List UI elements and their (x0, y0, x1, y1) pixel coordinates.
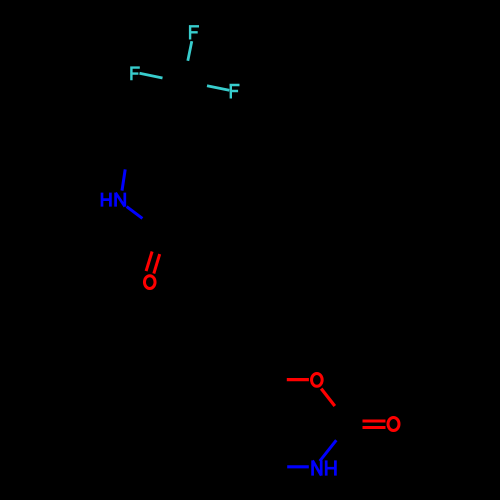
bond aryl-O2 horizontal (red half) (287, 378, 309, 381)
atom label HN (ring amide nitrogen) (102, 193, 125, 207)
bond N-C(=O) down (blue half) (127, 207, 143, 219)
double bond C=O3 (red halves) (363, 421, 386, 428)
atom label F1 (top fluorine) (189, 25, 199, 39)
atom label O1 (lactam oxygen) (144, 276, 155, 289)
atom label O3 (carbamate carbonyl oxygen) (388, 418, 399, 431)
bond O2-C carbamate (red half) (321, 389, 335, 406)
bond N-C carbamate diagonal (blue half) (320, 440, 337, 461)
double bond C=O1 (red halves) (146, 252, 160, 274)
bond N-C ring up (blue half) (122, 169, 125, 190)
atom label F2 (left fluorine) (130, 66, 140, 80)
atom label O2 (ether oxygen) (312, 374, 323, 387)
bond C-F3 (cyan half) (207, 86, 229, 90)
atom label NH (carbamate nitrogen) (313, 460, 336, 475)
bond N-CH3 horizontal (blue half) (287, 465, 309, 468)
bond C-F2 (cyan half) (140, 73, 163, 78)
atom label F3 (right fluorine) (230, 84, 240, 99)
bond C-F1 (cyan half) (188, 41, 192, 61)
